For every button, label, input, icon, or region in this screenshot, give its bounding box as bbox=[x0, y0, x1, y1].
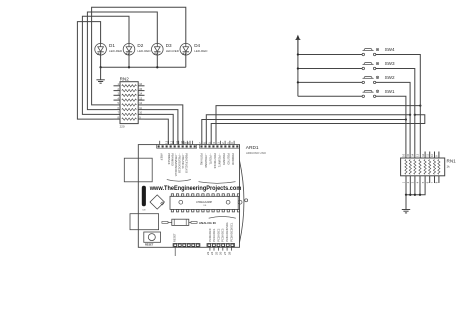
resistor network RN1 bbox=[401, 158, 445, 176]
wire ARD1 pin7 to SW1 bbox=[202, 120, 406, 145]
RN1 top stub pin 10 bbox=[434, 152, 436, 159]
svg-text:ANALOG IN: ANALOG IN bbox=[199, 221, 216, 225]
wire RN1 pin 1 to ground bus bbox=[405, 176, 407, 195]
switch SW2 bbox=[362, 76, 379, 83]
RN2 resistor element 4 bbox=[122, 99, 137, 101]
crystal X1 bbox=[150, 195, 164, 209]
svg-text:LED-RED: LED-RED bbox=[109, 49, 123, 53]
wire ARD1 pin6 to SW2 bbox=[206, 115, 410, 145]
junction ground bus bbox=[409, 194, 411, 196]
svg-text:PC5/ADC5/SCL: PC5/ADC5/SCL bbox=[229, 222, 233, 242]
junction SW3 net bbox=[414, 114, 416, 116]
RN1 resistor element 5 bbox=[424, 160, 426, 175]
RN2 resistor element 2 bbox=[122, 89, 137, 91]
fuse F1 bbox=[162, 219, 197, 225]
ARD1 bottom-left header bbox=[173, 243, 200, 247]
RN1 resistor element 3 bbox=[414, 160, 416, 175]
svg-text:PB4/MISO: PB4/MISO bbox=[171, 153, 175, 166]
RN1 resistor element 1 bbox=[405, 160, 407, 175]
svg-text:PC1/ADC1: PC1/ADC1 bbox=[212, 228, 216, 242]
connector CN black pill bbox=[142, 186, 146, 207]
wire D2 cathode bbox=[128, 55, 130, 67]
ARD1 top-left stub pin 8 bbox=[189, 141, 191, 145]
svg-text:11: 11 bbox=[175, 141, 179, 144]
svg-text:LED-RED: LED-RED bbox=[194, 49, 208, 53]
RN2 resistor element 6 bbox=[122, 108, 137, 110]
wire SW4 to RN1 bbox=[376, 55, 421, 159]
svg-text:PD4/T0/XCK: PD4/T0/XCK bbox=[213, 153, 217, 169]
RN1 resistor element 2 bbox=[409, 160, 411, 175]
ARD1 bottom-right stub pin 23 bbox=[209, 247, 211, 251]
svg-text:13: 13 bbox=[165, 140, 169, 143]
power jack bbox=[130, 214, 159, 230]
ARD1 bottom-right stub pin 25 bbox=[218, 247, 220, 251]
op board ARD1 outline bbox=[138, 145, 247, 248]
ARD1 top-left stub pin AREF bbox=[191, 141, 193, 145]
svg-text:LED-RED: LED-RED bbox=[166, 49, 180, 53]
RN1 resistor element 7 bbox=[433, 160, 435, 175]
RN1 bottom stub pin 8 bbox=[438, 176, 440, 183]
svg-text:PD2/INT0: PD2/INT0 bbox=[222, 153, 226, 165]
svg-text:RESET: RESET bbox=[145, 244, 154, 247]
svg-text:PC3/ADC3: PC3/ADC3 bbox=[221, 228, 225, 242]
USB connector bbox=[124, 158, 152, 182]
junction SW4 net bbox=[419, 104, 421, 106]
svg-text:SW4: SW4 bbox=[385, 47, 395, 52]
wire power bus vertical bbox=[297, 39, 299, 96]
wire D4 anode to RN2 pin 5 bbox=[92, 7, 186, 105]
svg-text:PB0/ICP1/CLKO: PB0/ICP1/CLKO bbox=[185, 153, 189, 173]
wire SW1 to RN1 bbox=[376, 96, 406, 158]
wire SW3 to RN1 bbox=[376, 69, 415, 159]
wire ARD1 pin4 to SW4 bbox=[216, 106, 420, 145]
svg-text:D4: D4 bbox=[194, 43, 200, 48]
svg-text:RESET: RESET bbox=[172, 233, 176, 242]
brace under PD labels bbox=[199, 182, 236, 184]
svg-text:PC4/ADC4/SDA: PC4/ADC4/SDA bbox=[225, 222, 229, 242]
ARD1 top-left stub pin 10 bbox=[183, 141, 185, 145]
ARD1 bottom-right stub pin 24 bbox=[213, 247, 215, 251]
wire RN2 pin 10 to ARD1 pin 11 bbox=[145, 114, 174, 144]
brace under PB labels bbox=[167, 180, 191, 182]
svg-text:220: 220 bbox=[120, 125, 125, 129]
svg-text:28: 28 bbox=[227, 251, 231, 255]
RN1 top stub pin 11 bbox=[429, 152, 431, 159]
switch SW1 bbox=[362, 90, 379, 97]
ARD1 bottom-left stub bbox=[174, 247, 176, 256]
ARD1 top-left stub pin 13 bbox=[168, 141, 170, 145]
svg-text:DIL: DIL bbox=[204, 205, 207, 207]
svg-text:~ PB1/OC1A: ~ PB1/OC1A bbox=[181, 153, 185, 169]
junction SW2 net bbox=[409, 114, 411, 116]
svg-text:10: 10 bbox=[180, 140, 184, 143]
RN1 resistor element 6 bbox=[429, 160, 431, 175]
RN2 resistor element 8 bbox=[122, 118, 137, 120]
svg-text:PD7/AIN1: PD7/AIN1 bbox=[200, 153, 204, 165]
svg-text:PC2/ADC2: PC2/ADC2 bbox=[216, 228, 220, 242]
reset button bbox=[144, 232, 161, 242]
svg-text:PC0/ADC0: PC0/ADC0 bbox=[208, 228, 212, 242]
RN2 resistor element 7 bbox=[122, 113, 137, 115]
LED D1 bbox=[95, 43, 107, 55]
junction power bus SW2 bbox=[297, 81, 299, 83]
ARD1 top-right stub pin 0 bbox=[233, 141, 235, 145]
svg-text:~ PB2/SS/OC1B: ~ PB2/SS/OC1B bbox=[178, 153, 182, 173]
svg-text:~ PD5/T1: ~ PD5/T1 bbox=[209, 153, 213, 165]
ARD1 top-left stub pin 12 bbox=[173, 141, 175, 145]
svg-text:~ PB3/MOSI/OC2A: ~ PB3/MOSI/OC2A bbox=[174, 153, 178, 176]
svg-text:CN: CN bbox=[142, 210, 146, 212]
ARD1 top-right stub pin 5 bbox=[210, 141, 212, 145]
wire power bus to SW3 bbox=[298, 68, 362, 70]
junction dots on LED bus bbox=[99, 66, 101, 68]
switch SW4 bbox=[362, 48, 379, 55]
junction ground bus bbox=[419, 194, 421, 196]
ground (LED bus) bbox=[96, 67, 104, 83]
RN1 bottom stub pin 6 bbox=[429, 176, 431, 183]
LED D2 bbox=[123, 43, 135, 55]
RN1 bottom stub pin 7 bbox=[434, 176, 436, 183]
ARD1 bottom-right header bbox=[207, 243, 235, 247]
svg-text:24: 24 bbox=[210, 251, 214, 255]
LED D3 bbox=[152, 43, 164, 55]
junction ground bus bbox=[405, 194, 407, 196]
svg-text:www.TheEngineeringProjects.com: www.TheEngineeringProjects.com bbox=[149, 185, 242, 192]
wire RN2 pin 12 to ARD1 pin 13 bbox=[145, 105, 183, 145]
svg-text:D2: D2 bbox=[137, 43, 143, 48]
ARD1 top-right stub pin 4 bbox=[215, 141, 217, 145]
ARD1 top-right stub pin 6 bbox=[205, 141, 207, 145]
ARD1 bottom-right stub pin 26 bbox=[222, 247, 224, 251]
wire power bus to SW4 bbox=[298, 54, 362, 56]
ARD1 bottom-right stub pin 27 bbox=[226, 247, 228, 251]
wire RN2 pin 9 to ARD1 pin 10 bbox=[145, 119, 169, 145]
wire RN1 pin 3 to ground bus bbox=[414, 176, 416, 195]
LED D4 bbox=[180, 43, 192, 55]
svg-text:D3: D3 bbox=[166, 43, 172, 48]
svg-text:SW2: SW2 bbox=[385, 75, 395, 80]
svg-text:PB5/SCK: PB5/SCK bbox=[167, 153, 171, 165]
svg-text:~ PD3/INT1: ~ PD3/INT1 bbox=[217, 153, 221, 168]
wire SW2 to RN1 bbox=[376, 82, 410, 158]
ARD1 top-right stub pin 7 bbox=[201, 141, 203, 145]
RN2 resistor element 5 bbox=[122, 104, 137, 106]
IC ATMEGA328P bbox=[170, 194, 242, 212]
svg-text:PD1/TXD: PD1/TXD bbox=[226, 153, 230, 164]
power +5V arrow bbox=[295, 35, 300, 55]
ARD1 top-left stub pin 9 bbox=[186, 141, 188, 145]
wire RN1 pin 2 to ground bus bbox=[409, 176, 411, 195]
RN1 resistor element 4 bbox=[419, 160, 421, 175]
svg-text:ARDUINO UNO: ARDUINO UNO bbox=[246, 151, 267, 155]
ARD1 top-right header bbox=[200, 145, 240, 149]
RN1 top stub pin 12 bbox=[424, 152, 426, 159]
svg-text:RN2: RN2 bbox=[120, 76, 130, 81]
svg-text:SW1: SW1 bbox=[385, 89, 395, 94]
wire D1 anode to RN2 pin 8 bbox=[77, 22, 113, 120]
wire ARD1 pin5 to SW3 loop bbox=[211, 115, 425, 145]
svg-text:PD0/RXD: PD0/RXD bbox=[231, 153, 235, 165]
wire D3 anode to RN2 pin 6 bbox=[87, 12, 157, 110]
svg-text:RN1: RN1 bbox=[447, 158, 457, 163]
svg-text:SW3: SW3 bbox=[385, 61, 395, 66]
svg-text:ATMEGA328P: ATMEGA328P bbox=[196, 201, 213, 204]
junction power bus SW4 bbox=[297, 53, 299, 55]
RN1 resistor element 8 bbox=[438, 160, 440, 175]
wire LED cathode bus bbox=[101, 66, 186, 68]
wire D3 cathode bbox=[156, 55, 158, 67]
svg-text:D1: D1 bbox=[109, 43, 115, 48]
svg-text:12: 12 bbox=[170, 140, 174, 143]
ARD1 bottom-right stub pin 28 bbox=[230, 247, 232, 251]
RN2 resistor element 1 bbox=[122, 85, 137, 87]
RN1 top stub pin 9 bbox=[438, 152, 440, 159]
ARD1 top-left stub pin 11 bbox=[178, 141, 180, 145]
junction SW1 net bbox=[405, 118, 407, 120]
ARD1 top-left header bbox=[157, 145, 197, 149]
wire RN1 pin 5 to ground bus bbox=[406, 176, 425, 195]
svg-text:AREF: AREF bbox=[160, 153, 164, 161]
wire power bus to SW2 bbox=[298, 81, 362, 83]
ARD1 top-right stub pin 1 bbox=[229, 141, 231, 145]
wire RN1 pin 4 to ground bus bbox=[419, 176, 421, 195]
junction ground bus bbox=[414, 194, 416, 196]
wire RN2 pin 11 to ARD1 pin 12 bbox=[145, 110, 178, 145]
ground (RN1) bbox=[402, 195, 410, 213]
wire D1 cathode bbox=[100, 55, 102, 67]
ARD1 top-right stub pin 2 bbox=[224, 141, 226, 145]
wire D2 anode to RN2 pin 7 bbox=[82, 16, 129, 114]
junction power bus SW3 bbox=[297, 67, 299, 69]
wire power bus to SW1 bbox=[298, 95, 362, 97]
svg-text:~ PD6/AIN0: ~ PD6/AIN0 bbox=[204, 153, 208, 168]
switch SW3 bbox=[362, 62, 379, 69]
svg-text:LED-RED: LED-RED bbox=[137, 49, 151, 53]
svg-text:1k: 1k bbox=[447, 164, 451, 168]
ARD1 top-right stub pin 3 bbox=[219, 141, 221, 145]
ARD1 top-left stub pin AREF bbox=[159, 141, 161, 145]
RN2 resistor element 3 bbox=[122, 94, 137, 96]
analog brace bbox=[209, 216, 236, 218]
wire D4 cathode bbox=[185, 55, 187, 67]
resistor network RN2 bbox=[114, 82, 145, 124]
